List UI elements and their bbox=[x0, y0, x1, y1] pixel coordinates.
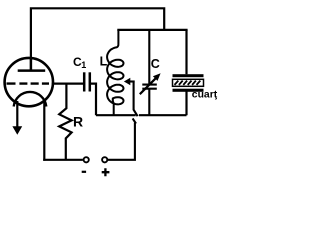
terminal plus bbox=[102, 157, 107, 162]
quartz crystal top electrode bbox=[173, 74, 204, 77]
anode (plate) of triode bbox=[18, 58, 46, 71]
cathode/filament dome bbox=[14, 92, 47, 107]
svg-text:C: C bbox=[151, 57, 160, 71]
svg-text:L: L bbox=[100, 55, 108, 69]
bottom rail: cathode/R to minus terminal bbox=[43, 159, 83, 161]
wire: C1 right plate to tank bottom rail bbox=[90, 84, 96, 116]
resistor R (grid leak) bbox=[59, 84, 71, 160]
capacitor C1 plates bbox=[83, 72, 86, 91]
filament lead with down arrow bbox=[16, 101, 18, 128]
svg-text:1: 1 bbox=[81, 60, 86, 70]
svg-text:R: R bbox=[73, 114, 83, 130]
label plus bbox=[102, 168, 110, 176]
tap feed line crossing bottom rail (hop) down to + terminal bbox=[108, 82, 138, 160]
terminal minus bbox=[84, 157, 89, 162]
grid (dashed) of triode bbox=[7, 82, 50, 84]
quartz crystal bottom electrode bbox=[173, 89, 204, 92]
svg-text:cuarţ: cuarţ bbox=[192, 90, 218, 101]
wire: tank bottom rail (gap at hop) bbox=[96, 114, 187, 116]
wire: grid lead to C1 bbox=[52, 82, 83, 84]
label minus bbox=[82, 171, 86, 173]
wire: tank top rail bbox=[117, 29, 187, 31]
variable capacitor C plates and leads bbox=[142, 30, 157, 115]
quartz crystal leads bbox=[185, 30, 187, 115]
quartz crystal plate (hatched) bbox=[173, 79, 204, 86]
variable capacitor arrow bbox=[140, 78, 156, 94]
triode tube envelope bbox=[5, 58, 53, 106]
inductor L (coil) bbox=[107, 30, 123, 115]
wire: cathode right leg down to bottom rail bbox=[43, 102, 45, 161]
wire: plate to top rail and down to tank top bbox=[31, 8, 164, 57]
coil tap arrow bbox=[124, 78, 130, 85]
